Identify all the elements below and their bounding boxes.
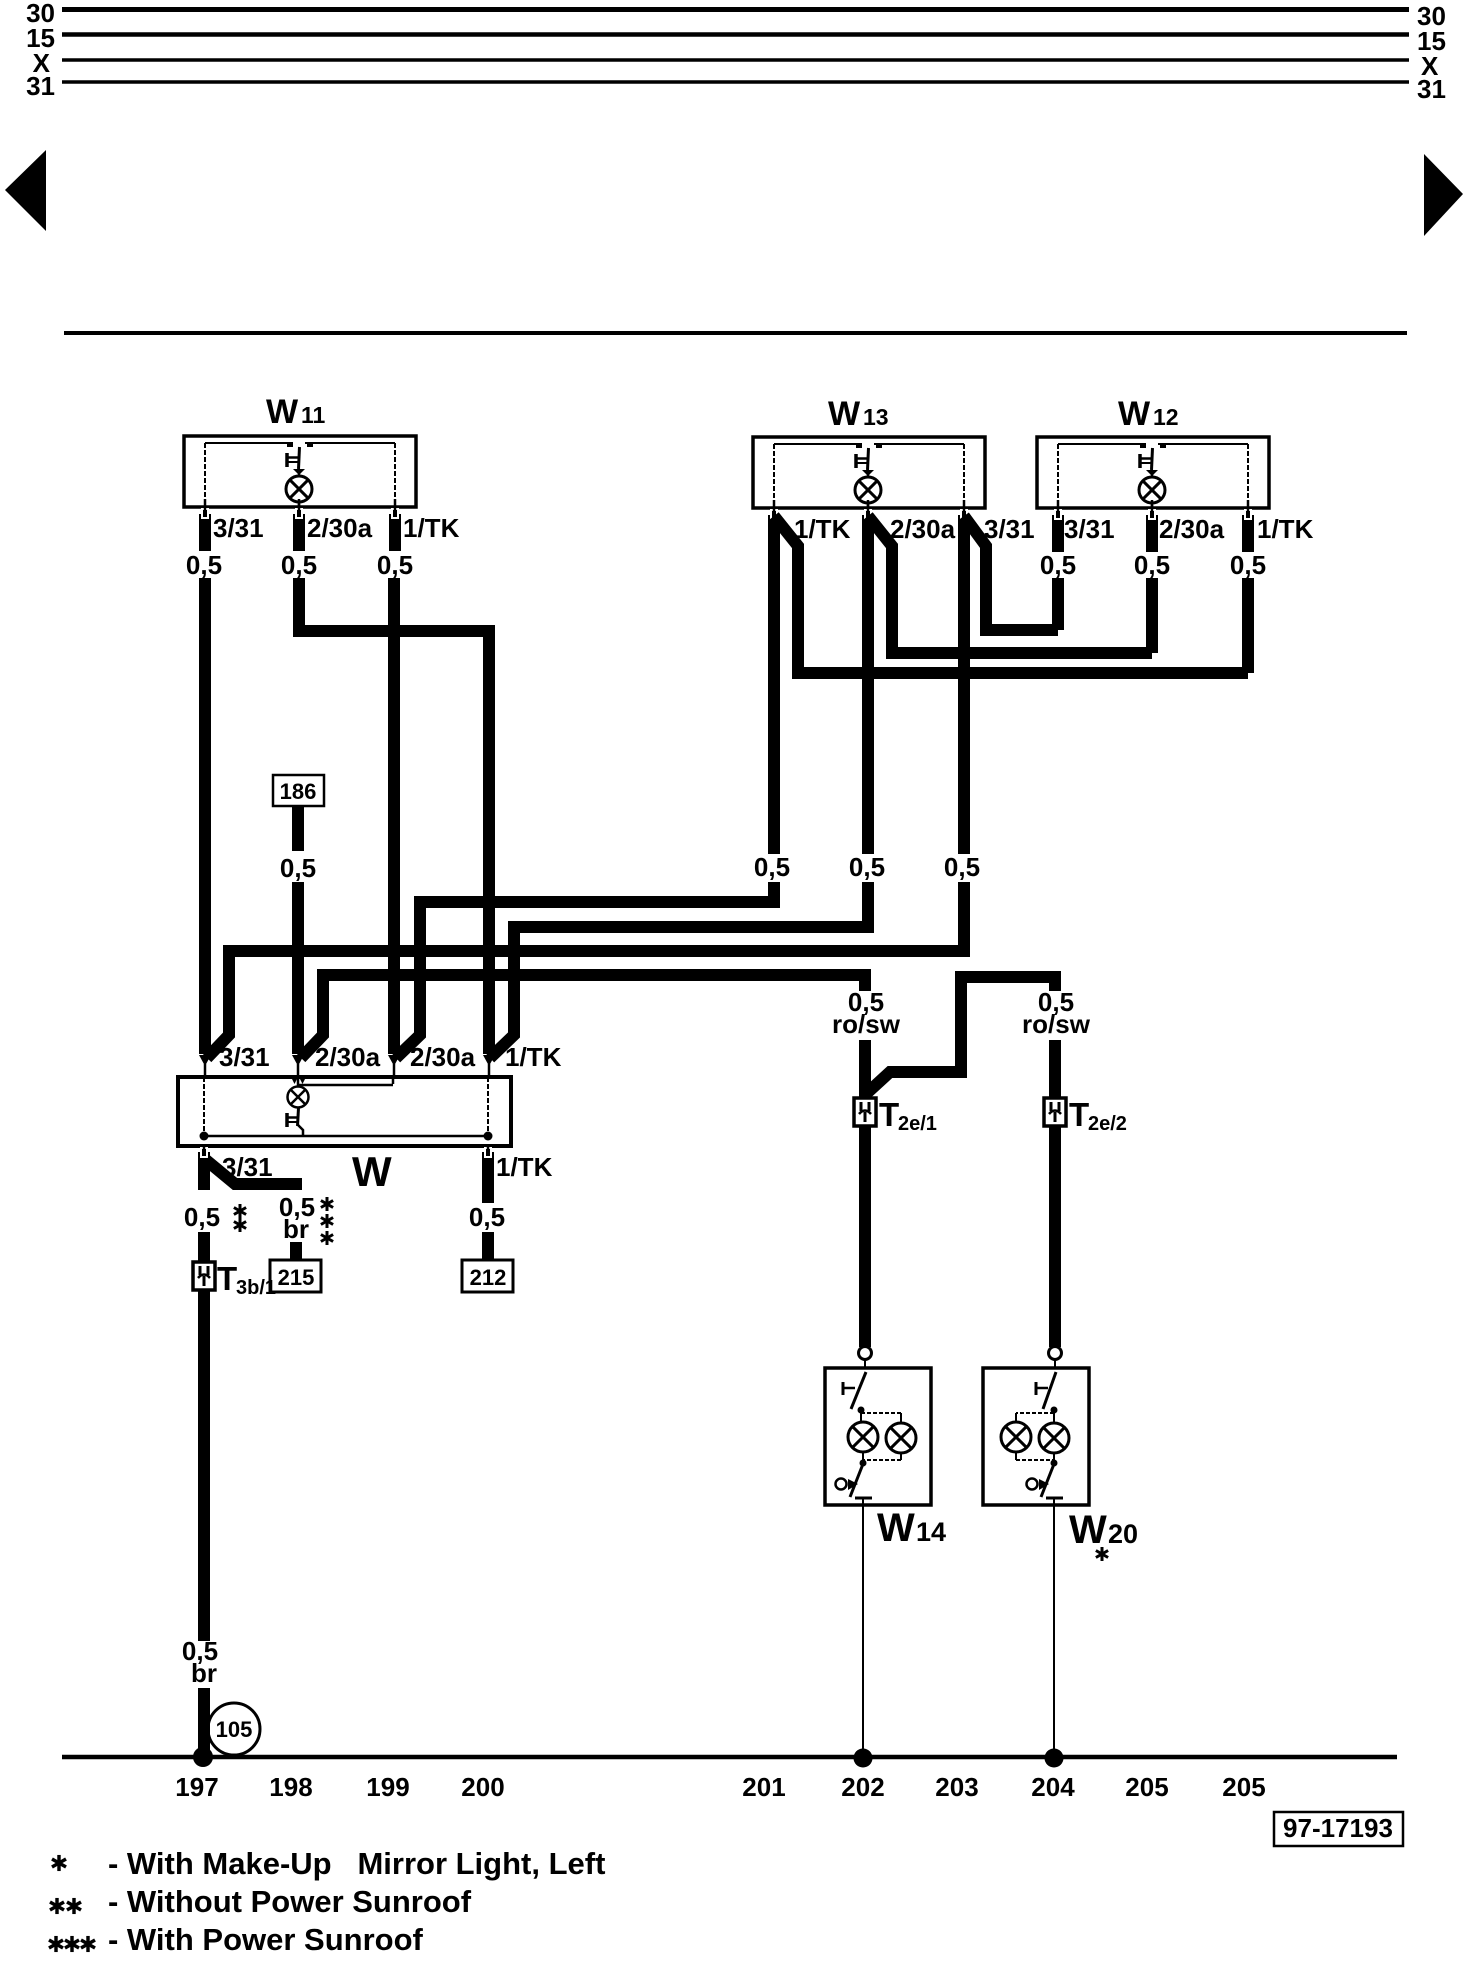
wire W:1/TK to terminal 212: [469, 1190, 505, 1262]
label 0,5 ** (left): [184, 1202, 246, 1232]
connector T3b/1: [193, 1260, 276, 1299]
wire T2e/2 to W20: [1049, 1126, 1062, 1368]
wire W20 to track 204: [1053, 1505, 1055, 1757]
label 0,5 br *** (sunroof branch): [279, 1192, 333, 1245]
svg-text:W: W: [1069, 1508, 1107, 1552]
label W11: [266, 393, 326, 431]
svg-text:12: 12: [1153, 404, 1179, 430]
svg-text:3/31: 3/31: [219, 1042, 270, 1072]
svg-text:- With Make-Up Mirror Light,: - With Make-Up Mirror Light, Left: [108, 1846, 605, 1881]
svg-text:201: 201: [742, 1772, 785, 1802]
svg-text:203: 203: [935, 1772, 978, 1802]
svg-text:W: W: [828, 395, 861, 433]
svg-text:- With Power Sunroof: - With Power Sunroof: [108, 1922, 424, 1957]
svg-text:0,5: 0,5: [1230, 550, 1266, 580]
wire label 0,5 ro/sw left: [832, 987, 901, 1039]
legend line 2: [50, 1884, 472, 1919]
svg-text:W: W: [877, 1506, 915, 1550]
W12 pin labels: [1064, 514, 1314, 544]
wire W13:1/TK branch diagonal to W12:1/TK (net TK): [774, 516, 1248, 673]
svg-text:3/31: 3/31: [213, 513, 264, 543]
svg-text:0,5: 0,5: [280, 853, 316, 883]
lamp W11 (front interior light): [184, 436, 416, 551]
svg-text:T: T: [217, 1260, 237, 1297]
svg-text:W: W: [1118, 395, 1151, 433]
svg-text:0,5: 0,5: [377, 550, 413, 580]
svg-text:31: 31: [1417, 74, 1446, 104]
svg-text:31: 31: [26, 71, 55, 101]
svg-text:3b/1: 3b/1: [236, 1277, 276, 1299]
bus bar 31: [26, 71, 1446, 104]
terminal 186 box: [273, 775, 324, 806]
svg-text:186: 186: [280, 779, 317, 804]
terminal 212 box: [462, 1260, 513, 1292]
svg-text:3/31: 3/31: [984, 514, 1035, 544]
svg-text:T: T: [1069, 1096, 1089, 1133]
track numbers: [175, 1772, 1265, 1802]
svg-text:0,5: 0,5: [186, 550, 222, 580]
label W14: [877, 1506, 946, 1550]
wire W:3/31 bottom fork: [198, 1146, 210, 1190]
connector T2e/1: [854, 1096, 937, 1135]
label W12: [1118, 395, 1179, 433]
wire label 0,5 ro/sw right: [1022, 987, 1091, 1039]
wire W13:2/30a branch diagonal to W12:2/30a (net 30a): [868, 516, 1152, 653]
wire W:2/30a branch to T2e/1 (horizontal H4): [301, 975, 865, 1058]
svg-text:215: 215: [278, 1265, 315, 1290]
svg-text:2/30a: 2/30a: [410, 1042, 476, 1072]
wire W12:3/31 drop: [1052, 578, 1064, 630]
wire into T2e/2: [1049, 1040, 1061, 1098]
svg-text:197: 197: [175, 1772, 218, 1802]
svg-text:0,5: 0,5: [1040, 550, 1076, 580]
separator line: [64, 331, 1407, 335]
svg-text:3/31: 3/31: [1064, 514, 1115, 544]
lamp W13 (rear interior light): [753, 437, 985, 552]
wire W13:2/30a to W:1/TK (horizontal H2): [490, 882, 868, 1058]
legend line 3: [49, 1922, 424, 1957]
svg-text:13: 13: [863, 404, 889, 430]
lamp W12 (rear interior light): [1037, 437, 1269, 552]
wire into T2e/1: [859, 1040, 871, 1098]
legend line 1: [52, 1846, 605, 1881]
wire T2e/1 to W14: [859, 1126, 872, 1368]
svg-text:- Without Power Sunroof: - Without Power Sunroof: [108, 1884, 472, 1919]
reading lamp W20: [983, 1368, 1089, 1505]
wire W11:3/31 down to W:3/31: [199, 578, 211, 1054]
wire W:1/TK bottom fork: [482, 1146, 494, 1190]
svg-text:0,5: 0,5: [754, 852, 790, 882]
W top pin labels: [219, 1042, 562, 1072]
svg-text:ro/sw: ro/sw: [1022, 1009, 1091, 1039]
svg-text:W: W: [352, 1148, 392, 1195]
wire W14 to track 202: [862, 1505, 864, 1757]
node dot 202: [854, 1749, 873, 1768]
node dot 197: [193, 1747, 213, 1767]
svg-text:1/TK: 1/TK: [496, 1152, 553, 1182]
wire W13:2/30a main drop: [862, 551, 874, 854]
svg-text:W: W: [266, 393, 299, 431]
svg-text:2/30a: 2/30a: [307, 513, 373, 543]
wire W12:1/TK drop: [1242, 578, 1254, 673]
svg-text:204: 204: [1031, 1772, 1075, 1802]
svg-text:11: 11: [301, 402, 326, 428]
svg-text:2/30a: 2/30a: [315, 1042, 381, 1072]
svg-text:0,5: 0,5: [281, 550, 317, 580]
W top terminal tips: [199, 1055, 211, 1077]
ground node 105: [208, 1703, 260, 1755]
wire into terminal 215: [290, 1242, 302, 1262]
svg-text:97-17193: 97-17193: [1283, 1813, 1393, 1843]
bus bar 15: [26, 23, 1446, 56]
right page arrow: [1424, 154, 1463, 236]
svg-text:105: 105: [216, 1717, 253, 1742]
wire W13:3/31 main drop: [958, 551, 970, 854]
wire W:3/31 down to T3b/1: [198, 1232, 210, 1262]
svg-text:199: 199: [366, 1772, 409, 1802]
wire 186 down to W:2/30a: [280, 806, 316, 1054]
W13 pin labels: [794, 514, 1035, 544]
label W13: [828, 395, 889, 433]
svg-text:198: 198: [269, 1772, 312, 1802]
ground rail: [62, 1755, 1397, 1760]
svg-text:0,5: 0,5: [1134, 550, 1170, 580]
W11 wire size labels 0,5: [186, 550, 413, 580]
svg-text:0,5: 0,5: [469, 1202, 505, 1232]
wire T3b/1 to ground rail: [182, 1290, 218, 1757]
bus bar 30: [26, 0, 1446, 31]
svg-text:br: br: [283, 1214, 309, 1244]
wire W12:2/30a drop: [1146, 578, 1158, 653]
reading lamp W14: [825, 1368, 931, 1505]
node dot 204: [1045, 1749, 1064, 1768]
svg-text:0,5: 0,5: [849, 852, 885, 882]
svg-text:1/TK: 1/TK: [403, 513, 460, 543]
connector T2e/2: [1044, 1096, 1127, 1135]
svg-text:20: 20: [1108, 1519, 1138, 1549]
svg-text:2e/2: 2e/2: [1088, 1113, 1127, 1135]
svg-text:2/30a: 2/30a: [890, 514, 956, 544]
W11 pin labels: [213, 513, 460, 543]
svg-text:0,5: 0,5: [944, 852, 980, 882]
diagram number box 97-17193: [1274, 1812, 1403, 1846]
svg-text:2e/1: 2e/1: [898, 1113, 937, 1135]
component W (front interior light / sunroof switch unit): [178, 1077, 511, 1146]
svg-text:br: br: [191, 1658, 217, 1688]
svg-text:1/TK: 1/TK: [505, 1042, 562, 1072]
W bottom pin labels: [222, 1152, 553, 1182]
wire W13:1/TK main drop: [768, 551, 780, 854]
svg-text:0,5: 0,5: [184, 1202, 220, 1232]
terminal 215 box: [270, 1260, 321, 1292]
svg-text:1/TK: 1/TK: [1257, 514, 1314, 544]
wire W13:1/TK to W:2/30a (horizontal H1): [396, 882, 774, 1058]
W12 wire size labels 0,5: [1040, 550, 1266, 580]
svg-text:2/30a: 2/30a: [1159, 514, 1225, 544]
wire W13:3/31 branch diagonal to W12:3/31 (net 31): [964, 516, 1058, 630]
left page arrow: [5, 150, 46, 231]
svg-text:212: 212: [470, 1265, 507, 1290]
wire branch T2e/1 to T2e/2 (horizontal H5): [866, 977, 1055, 1094]
W13 wire size labels 0,5: [754, 852, 980, 882]
wire branch to terminal 215: [206, 1160, 302, 1184]
svg-text:1/TK: 1/TK: [794, 514, 851, 544]
svg-text:200: 200: [461, 1772, 504, 1802]
wire W11:1/TK down to W:2/30a: [388, 578, 400, 1054]
label W20: [1069, 1508, 1138, 1561]
wire W13:3/31 to W:3/31 (horizontal H3): [207, 882, 964, 1058]
svg-text:205: 205: [1222, 1772, 1265, 1802]
svg-text:202: 202: [841, 1772, 884, 1802]
bus bar X: [33, 48, 1439, 81]
svg-text:ro/sw: ro/sw: [832, 1009, 901, 1039]
svg-text:14: 14: [916, 1517, 946, 1547]
wire W11:2/30a jog right and down to W:1/TK: [299, 578, 489, 1054]
svg-text:T: T: [879, 1096, 899, 1133]
svg-text:205: 205: [1125, 1772, 1168, 1802]
